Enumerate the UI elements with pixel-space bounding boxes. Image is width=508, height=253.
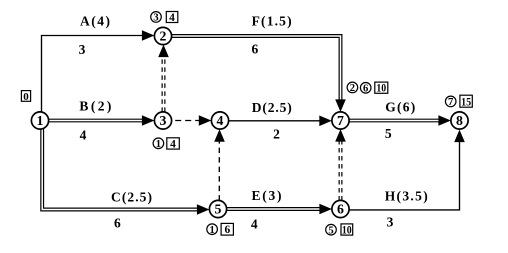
boxed 15 at node 8 <box>460 95 472 108</box>
svg-text:G(6): G(6) <box>385 99 415 114</box>
circled 7 at node 8 <box>445 96 456 108</box>
boxed 4 at node 3 <box>167 138 180 151</box>
circled 5 at node 6 <box>326 224 337 236</box>
wire dummy 3 to 2, double dashed <box>158 45 169 112</box>
svg-text:4: 4 <box>217 113 224 128</box>
svg-text:6: 6 <box>337 202 344 217</box>
svg-text:15: 15 <box>461 96 471 108</box>
wire activity G (7 to 8), double line <box>349 115 451 126</box>
svg-text:A(4): A(4) <box>80 13 110 28</box>
svg-text:6: 6 <box>252 41 259 56</box>
svg-text:6: 6 <box>114 216 121 231</box>
wire activity D (4 to 7) <box>229 116 332 127</box>
node 8 <box>451 112 468 129</box>
circled 6 at node 7 <box>360 83 371 95</box>
svg-text:0: 0 <box>23 91 29 103</box>
svg-text:4: 4 <box>80 128 87 143</box>
svg-text:7: 7 <box>337 113 344 128</box>
node 6 <box>332 200 349 217</box>
svg-text:10: 10 <box>342 224 352 236</box>
svg-text:3: 3 <box>153 13 158 24</box>
svg-text:8: 8 <box>456 113 463 128</box>
node 4 <box>211 112 228 129</box>
svg-text:E(3): E(3) <box>252 188 282 203</box>
node 2 <box>154 27 171 44</box>
boxed 10 at node 6 <box>341 224 353 237</box>
wire activity B (1 to 3), double line <box>49 115 155 126</box>
wire dummy 3 to 4, dashed <box>172 115 211 126</box>
svg-text:H(3.5): H(3.5) <box>385 188 428 203</box>
circled 1 at node 5 <box>207 224 218 236</box>
circled 2 at node 7 <box>347 82 358 94</box>
svg-text:4: 4 <box>169 12 175 24</box>
svg-text:1: 1 <box>209 225 214 236</box>
boxed 6 at node 5 <box>221 223 233 236</box>
svg-text:6: 6 <box>224 224 230 236</box>
wire activity H (6 to 8) <box>349 130 465 210</box>
node 3 <box>154 112 171 129</box>
wire activity F (2 to 7), double line <box>172 35 346 112</box>
svg-text:2: 2 <box>160 29 167 44</box>
boxed 10 at node 7 <box>375 82 388 95</box>
svg-text:3: 3 <box>160 113 167 128</box>
svg-text:3: 3 <box>79 42 86 57</box>
svg-text:5: 5 <box>328 225 333 236</box>
svg-text:5: 5 <box>215 202 222 217</box>
circled 1 at node 3 <box>153 138 164 150</box>
svg-text:C(2.5): C(2.5) <box>111 189 152 204</box>
svg-text:3: 3 <box>387 215 394 230</box>
svg-text:1: 1 <box>37 113 44 128</box>
wire activity E (5 to 6), double line <box>227 204 332 215</box>
circled 3 at node 2 <box>151 12 162 24</box>
svg-text:7: 7 <box>448 97 454 108</box>
svg-text:2: 2 <box>273 126 280 141</box>
svg-text:5: 5 <box>385 126 392 141</box>
boxed 4 at node 2 <box>166 12 178 24</box>
wire activity C (1 to 5), double line <box>41 129 210 215</box>
svg-text:10: 10 <box>376 83 386 95</box>
wire dummy 6 to 7, double dashed <box>335 129 346 200</box>
svg-text:4: 4 <box>251 216 258 231</box>
node 7 <box>332 112 349 129</box>
boxed 0 at node 1 <box>21 91 30 103</box>
node 1 <box>31 112 48 129</box>
svg-text:2: 2 <box>350 83 355 94</box>
svg-text:6: 6 <box>363 84 368 95</box>
svg-text:4: 4 <box>170 138 176 150</box>
wire dummy 5 to 4, dashed <box>214 129 225 200</box>
wire activity A (1 to 2) <box>42 30 155 112</box>
node 5 <box>209 200 226 217</box>
svg-text:D(2.5): D(2.5) <box>252 100 292 115</box>
svg-text:1: 1 <box>156 139 161 150</box>
svg-text:F(1.5): F(1.5) <box>252 13 292 28</box>
